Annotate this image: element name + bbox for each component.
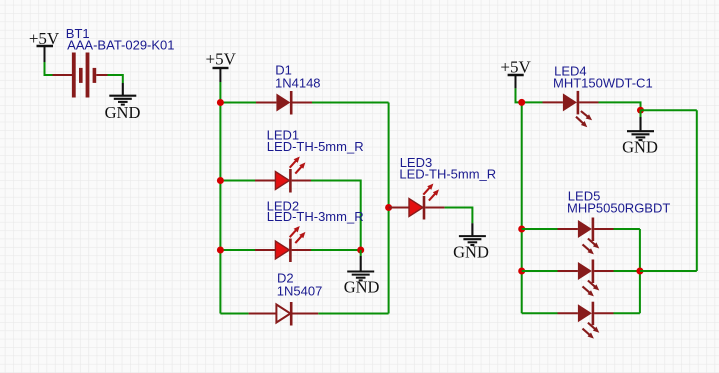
junction LED4/GND/right rail [637,107,644,114]
svg-text:MHP5050RGBDT: MHP5050RGBDT [567,200,670,215]
wire D1 to right rail [312,102,389,104]
wire battery right pin to ground [108,75,123,83]
ground (LED4) [622,117,658,156]
ground (battery section) [105,83,141,122]
junction left bus/LED5 pin1 [518,226,525,233]
svg-text:GND: GND [622,137,658,156]
wire left bus to LED5 pin3 [522,312,558,314]
svg-text:LED-TH-3mm_R: LED-TH-3mm_R [267,209,364,224]
LED LED5 element A [558,218,614,255]
junction left bus/LED5 pin2 [518,268,525,275]
wire junction to ground (middle) [360,250,362,256]
ground (LED3) [453,223,489,261]
wire bus to D1 [220,102,256,104]
diode D1 [256,91,312,115]
battery BT1 [53,53,108,98]
ground (middle section) [344,256,380,297]
wire +5V to battery left pin [45,62,53,75]
svg-text:LED-TH-5mm_R: LED-TH-5mm_R [399,167,496,182]
LED LED5 element C [558,302,614,339]
wire left bus to LED5 pin1 [522,228,558,230]
svg-text:LED-TH-5mm_R: LED-TH-5mm_R [267,139,364,154]
wire D2 to right rail [318,313,388,315]
LED LED5 element B [558,260,614,297]
wire LED4 right to GND junction [599,102,641,110]
svg-text:1N4148: 1N4148 [275,76,321,91]
wire bus to D2 row [220,313,248,315]
junction bus/LED2 [217,247,224,254]
wire right rail vertical [388,103,390,314]
svg-text:MHT150WDT-C1: MHT150WDT-C1 [553,76,653,91]
wire LED3 to ground [445,208,473,224]
wire LED1 right to GND branch [311,181,361,251]
junction rail/LED3 [385,204,392,211]
power flag +5V (middle section) [206,49,237,82]
junction +5V/left bus [518,99,525,106]
wire LED5 B right to right bus [614,270,640,272]
LED LED3 [389,184,445,220]
wire LED5 right bus vertical [639,229,641,313]
diode D2 [249,302,319,326]
wire LED5 C right to right bus [614,312,640,314]
svg-text:+5V: +5V [500,57,531,76]
wire bus to LED1 [220,180,255,182]
wire bus to LED2 [220,249,255,251]
wire right rail vertical [696,110,698,271]
wire middle +5V bus vertical [219,82,221,314]
power flag +5V (battery section) [29,29,60,62]
wire left bus to LED5 pin2 [522,270,558,272]
junction LED5 B/right bus [636,268,643,275]
wire junction to ground (LED4) [640,110,642,118]
svg-text:+5V: +5V [206,49,237,68]
svg-text:AAA-BAT-029-K01: AAA-BAT-029-K01 [67,37,174,52]
wire junction to right rail [641,109,697,111]
wire LED5 A right to right bus [614,228,640,230]
junction bus/LED1 [217,177,224,184]
junction LED1/LED2/GND [357,247,364,254]
svg-text:GND: GND [344,278,380,297]
svg-text:GND: GND [453,242,489,261]
wire right +5V stem [516,88,543,102]
svg-text:GND: GND [105,103,141,122]
LED LED4 [543,91,599,127]
power flag +5V (right section) [500,57,531,88]
svg-text:1N5407: 1N5407 [277,283,323,298]
LED LED2 [255,226,311,262]
LED LED1 [255,157,311,193]
wire right bus junction to right rail [640,270,697,272]
junction bus/D1 [217,99,224,106]
wire LED2 right to junction [311,249,361,251]
wire LED5 left bus vertical [521,102,523,313]
